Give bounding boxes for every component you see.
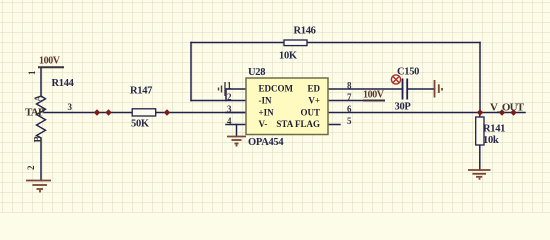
ground at pin 1 (rotated left) [219, 82, 227, 96]
power 100V right bar [363, 100, 385, 102]
svg-text:10K: 10K [279, 51, 298, 62]
resistor R147 body [132, 109, 156, 116]
junction dot 3 on input wire [164, 109, 170, 115]
svg-text:50K: 50K [131, 119, 150, 130]
svg-text:R146: R146 [294, 26, 316, 37]
wire feedback to -IN [191, 100, 246, 102]
ground after C150 (rotated right) [435, 80, 443, 98]
no-ERC marker on C150 [391, 75, 400, 84]
svg-text:TAP: TAP [25, 107, 45, 119]
wire pin4 down to ground [236, 125, 238, 137]
junction dot 2 on input wire [105, 109, 111, 115]
svg-text:100V: 100V [39, 56, 61, 67]
pin 4 stub U28 [226, 124, 246, 126]
svg-text:V-: V- [259, 119, 268, 129]
pin 1 stub U28 [226, 88, 246, 90]
pin 7 stub wire to 100V [328, 100, 364, 102]
svg-text:2: 2 [227, 92, 232, 102]
power 100V left bar [38, 66, 64, 68]
svg-text:R144: R144 [52, 78, 75, 89]
pin 5 stub U28 [328, 124, 340, 126]
svg-text:OUT: OUT [300, 107, 320, 117]
junction dot feedback corner [477, 109, 483, 115]
svg-text:-IN: -IN [259, 96, 272, 106]
wire C150 right plate to ground [407, 88, 434, 90]
svg-text:A: A [34, 94, 45, 102]
svg-text:100V: 100V [363, 90, 385, 101]
op-amp U28 body [246, 78, 328, 135]
wire feedback top left [191, 42, 284, 44]
svg-text:1: 1 [227, 81, 232, 91]
svg-text:3: 3 [227, 104, 232, 114]
svg-text:EDCOM: EDCOM [259, 84, 294, 94]
svg-text:R147: R147 [130, 86, 152, 97]
svg-text:+IN: +IN [259, 107, 275, 117]
svg-text:ED: ED [307, 84, 320, 94]
wire main input to +IN [44, 112, 246, 114]
resistor R141 body [476, 117, 484, 145]
svg-text:3: 3 [68, 102, 73, 112]
wire pin1 pin2 join [225, 89, 227, 101]
pin 6 stub and output wire [328, 112, 525, 114]
ground under R144 [26, 181, 51, 193]
potentiometer R144 zigzag [37, 96, 46, 138]
svg-text:7: 7 [347, 92, 352, 102]
svg-text:C150: C150 [397, 67, 419, 78]
wire R141 top [479, 113, 481, 118]
svg-text:30P: 30P [395, 102, 412, 113]
svg-text:1: 1 [27, 70, 37, 75]
svg-text:2: 2 [26, 165, 36, 170]
capacitor C150 plates [403, 79, 408, 100]
svg-text:6: 6 [347, 104, 352, 114]
wire feedback left vertical [190, 43, 192, 101]
wire pot bottom to ground [40, 138, 42, 181]
svg-text:V+: V+ [308, 96, 320, 106]
junction dot output 2 [510, 109, 516, 115]
pin 8 stub and wire to C150 [328, 88, 403, 90]
resistor R146 body [284, 40, 307, 46]
svg-text:8: 8 [347, 81, 352, 91]
power 100V left lead wire [40, 67, 42, 96]
ground under R141 [468, 170, 491, 180]
svg-text:4: 4 [227, 116, 232, 126]
junction dot 1 on input wire [94, 109, 100, 115]
wire feedback right vertical [479, 43, 481, 113]
svg-text:10k: 10k [483, 135, 499, 146]
svg-text:R141: R141 [483, 124, 505, 135]
svg-text:V_OUT: V_OUT [490, 102, 525, 114]
junction dot output 1 [499, 109, 505, 115]
svg-text:U28: U28 [248, 67, 265, 78]
ground at pin 4 of U28 [227, 137, 246, 147]
svg-text:STA FLAG: STA FLAG [276, 119, 320, 129]
svg-text:B: B [33, 136, 44, 143]
pin 3 stub U28 [226, 112, 246, 114]
svg-text:OPA454: OPA454 [248, 137, 284, 148]
wire feedback top right [307, 42, 480, 44]
wire R141 bottom to ground [479, 145, 481, 170]
svg-text:5: 5 [347, 116, 352, 126]
